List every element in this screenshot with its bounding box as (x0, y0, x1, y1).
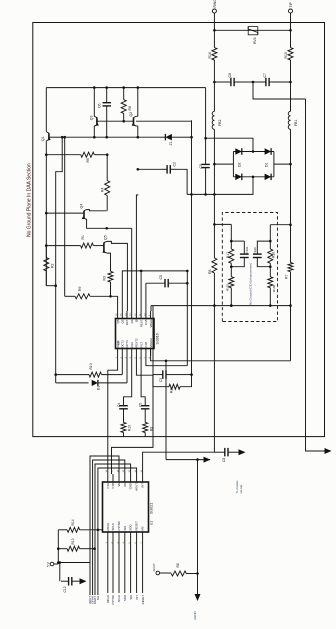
svg-text:C1B: C1B (111, 483, 115, 489)
svg-text:R14: R14 (71, 519, 75, 525)
node b2 rail (269, 304, 272, 307)
wire 55col long (55, 286, 57, 375)
resistor R9 (75, 294, 90, 299)
capacitor C13 (214, 451, 224, 453)
wire 214 rail resistor segment (213, 224, 215, 258)
wire 166 bottom corner (166, 459, 210, 461)
svg-text:FILT: FILT (139, 342, 143, 348)
svg-text:9: 9 (149, 314, 151, 316)
svg-text:SDI: SDI (129, 595, 133, 600)
node rail r8 (122, 86, 125, 89)
wire C1A column crossing barrier (112, 306, 154, 474)
svg-text:R3: R3 (102, 276, 106, 281)
node r14 m1col (97, 529, 100, 532)
wire q1rail corner down (46, 285, 55, 287)
svg-text:R1: R1 (81, 235, 85, 240)
resistor R3 (108, 271, 113, 282)
node c2 tap (137, 168, 140, 171)
IC U2 line-side box (116, 319, 155, 349)
capacitor C7 (261, 81, 266, 83)
wire Q1 emitter rail (45, 88, 47, 132)
wire 64col (64, 137, 66, 296)
svg-text:REXT2: REXT2 (135, 338, 139, 347)
wire 224 link (214, 223, 231, 225)
resistor R2 (44, 258, 49, 271)
resistor R4 (106, 155, 108, 181)
svg-text:14: 14 (125, 313, 127, 316)
wire ring stub (213, 13, 215, 30)
wire c12 branch (59, 563, 61, 582)
wire 166 column to lower section (165, 361, 167, 460)
node 285line 55col (54, 284, 57, 287)
wire 214 rail to C13 (213, 306, 215, 453)
wire W3 ignd rail (151, 349, 291, 361)
wire q3 collector (93, 88, 95, 117)
U1 right side pin stubs (107, 474, 109, 482)
svg-text:16: 16 (116, 313, 118, 316)
node zline 64col (63, 136, 66, 139)
svg-text:C8: C8 (228, 73, 232, 78)
svg-text:R10: R10 (89, 363, 93, 369)
wire ring DC line to bridge (213, 129, 215, 194)
terminal RING (212, 9, 216, 13)
svg-text:FSYNC: FSYNC (117, 521, 121, 530)
capacitor C2 (161, 168, 167, 170)
wire cid branch2 column (269, 225, 271, 241)
svg-text:C5: C5 (139, 403, 143, 407)
node q3 emitter baseline (93, 136, 96, 139)
svg-text:VREG2: VREG2 (149, 338, 153, 348)
wire tip line to W3 corner (290, 306, 292, 361)
wire 224 link2 (270, 224, 290, 226)
node rail c6 (105, 86, 108, 89)
svg-text:D1: D1 (97, 386, 101, 390)
svg-text:FB1: FB1 (294, 120, 298, 126)
diode D3 (265, 174, 272, 181)
node b2 bot (269, 265, 272, 268)
wire 5v line (54, 563, 59, 565)
node tip cid rail (289, 304, 292, 307)
wire Q1 base / Z1 line (62, 136, 94, 138)
wire Va column (186, 271, 188, 366)
svg-text:IGND: IGND (116, 341, 120, 348)
node q2 emitter baseline (137, 136, 140, 139)
dashed CID enhancement box (222, 213, 277, 322)
node bridge bottom mid (252, 175, 255, 178)
resistor R10 (123, 412, 125, 422)
wire C8 C7 rail (214, 81, 228, 83)
svg-text:14: 14 (117, 469, 119, 472)
wire R11 loop (180, 375, 192, 387)
transistor Q3 (96, 118, 98, 126)
svg-text:16: 16 (106, 469, 108, 472)
capacitor C100 parallel (257, 241, 270, 254)
node r6 r4col (106, 153, 109, 156)
transistor Q2 (133, 118, 135, 126)
node 55col r12 (54, 373, 57, 376)
wire P7 top column W2 C5 (145, 283, 147, 311)
wire P2 top column W1 (122, 271, 187, 311)
resistor R9b (144, 412, 146, 422)
svg-text:Q1: Q1 (41, 136, 45, 141)
svg-text:Q5: Q5 (103, 235, 107, 240)
wire q3q2 base line (99, 120, 131, 122)
wire bridge top row (233, 151, 274, 153)
svg-text:TIP: TIP (289, 1, 293, 7)
varistor RV1 (248, 27, 258, 35)
svg-text:11: 11 (140, 313, 142, 316)
node c12 tee (59, 561, 62, 564)
node w1 p6 (140, 270, 143, 273)
capacitor C3 (153, 374, 163, 376)
wire U1 pin7 C13 line (143, 452, 215, 474)
wire q5 emitter / R3 (107, 253, 111, 271)
svg-text:13: 13 (130, 313, 132, 316)
svg-text:U1: U1 (149, 521, 153, 525)
svg-text:C9: C9 (199, 164, 203, 169)
resistor R18 (269, 241, 271, 249)
svg-text:Q3: Q3 (90, 115, 94, 120)
arrow off-page vcm (325, 448, 332, 454)
wire P1 bottom to U1 (108, 356, 118, 474)
svg-text:INT: INT (141, 483, 145, 488)
svg-text:R8: R8 (128, 106, 132, 111)
resistor R17b (212, 258, 217, 273)
resistor R7 (288, 263, 293, 272)
node r13 rgcol (93, 547, 96, 550)
svg-text:Q2: Q2 (129, 112, 133, 117)
capacitor C11 (144, 409, 146, 412)
svg-text:10: 10 (144, 313, 146, 316)
svg-text:Si3016: Si3016 (156, 333, 160, 344)
node q4emit r4 (105, 227, 108, 230)
svg-text:DCT3: DCT3 (125, 340, 129, 348)
resistor R11 (169, 384, 180, 389)
svg-text:R9: R9 (78, 286, 82, 291)
wire q2 collector (136, 115, 138, 117)
svg-text:C1B: C1B (144, 342, 148, 348)
svg-text:Si3021: Si3021 (149, 503, 153, 514)
U1 left side pin stubs (107, 532, 109, 539)
svg-text:DCT2: DCT2 (121, 340, 125, 348)
ferrite bead FB2 (212, 111, 214, 129)
node agnd tee (196, 458, 199, 461)
svg-text:IB: IB (135, 319, 139, 322)
svg-text:R100: R100 (272, 284, 276, 292)
wire tip FB segment (290, 60, 292, 111)
resistor R15 (290, 30, 292, 47)
node dct c9col (204, 193, 207, 196)
wire P5 top column to q2 emitter net (136, 194, 137, 311)
wire q5 collector line (107, 241, 127, 311)
svg-text:R17: R17 (226, 252, 230, 258)
svg-text:D2: D2 (238, 162, 242, 167)
node r8 baseline (122, 120, 125, 123)
wire D1A line (56, 382, 89, 384)
wire P4 top column (131, 228, 133, 311)
node b2 top (269, 240, 272, 243)
node q1rail r1 (45, 244, 48, 247)
wire Va P7 connection (146, 356, 187, 366)
svg-text:10: 10 (141, 469, 143, 472)
node zline end vb (190, 136, 193, 139)
svg-text:RX2: RX2 (130, 342, 134, 348)
svg-text:MCLK: MCLK (106, 523, 110, 531)
diode D1 (265, 148, 272, 155)
svg-text:No Ground (CID Enhancement): No Ground (CID Enhancement) (249, 263, 253, 305)
svg-text:5 V: 5 V (47, 561, 51, 567)
svg-text:7: 7 (144, 357, 146, 359)
svg-text:C12: C12 (63, 586, 67, 592)
svg-text:GND: GND (129, 483, 133, 489)
svg-text:RV1: RV1 (253, 37, 257, 44)
ferrite bead FB1 (288, 111, 290, 129)
svg-text:12: 12 (135, 313, 137, 316)
svg-text:R13: R13 (71, 538, 75, 544)
wire P3 bottom (126, 356, 128, 383)
capacitor C101 parallel (231, 240, 244, 242)
svg-text:VREG: VREG (149, 320, 153, 328)
svg-text:SDO: SDO (123, 594, 127, 601)
wire U1 pin4 wrap (93, 460, 125, 595)
capacitor C5 (146, 282, 165, 284)
wire C9 rail (205, 88, 207, 160)
resistor R12 (89, 372, 102, 377)
wire U1 pin6 wrap (98, 468, 137, 595)
wire P6 top column (140, 271, 142, 311)
node bridge left tap (213, 163, 216, 166)
wire tip line r7 segment (290, 225, 292, 263)
wire P8 top column (150, 306, 152, 311)
transistor Q5 body (103, 243, 105, 253)
wire tip stub (290, 13, 292, 30)
node c8c7 mid (252, 81, 255, 84)
svg-text:FB2: FB2 (218, 120, 222, 126)
node ring RV1 (213, 29, 216, 32)
wire 62col jog (56, 137, 63, 286)
svg-text:15: 15 (121, 313, 123, 316)
node bridge top mid (252, 150, 255, 153)
wire 214 rail upper (213, 194, 215, 224)
svg-text:RING: RING (213, 0, 217, 8)
terminal AOUT (156, 571, 160, 575)
svg-text:INT: INT (135, 595, 139, 600)
wire q4 emitter line (86, 219, 132, 228)
outer DAA border box (33, 23, 325, 437)
svg-text:12: 12 (129, 469, 131, 472)
resistor R1 (81, 243, 94, 248)
wire R2 branch (45, 271, 47, 286)
resistor R100 (269, 267, 271, 277)
capacitor C12 (61, 580, 69, 582)
wire Q1 base line (49, 136, 62, 138)
resistor R14 (67, 527, 80, 532)
wire r9 line (65, 295, 75, 297)
svg-text:SCLK: SCLK (111, 523, 115, 530)
svg-text:SDO: SDO (129, 524, 133, 531)
arrow off page after C13 (239, 449, 246, 455)
wire U1 pin5 wrap (95, 464, 131, 595)
wire 55col to diode branch (55, 375, 57, 383)
wire q3 emitter (93, 126, 95, 137)
svg-text:C8: C8 (222, 458, 226, 462)
resistor R17 (230, 241, 232, 249)
node rail q2 (137, 86, 140, 89)
wire U1 left pin leads (107, 539, 109, 593)
U2 bottom side pin stubs (117, 349, 119, 357)
svg-text:M0: M0 (141, 526, 145, 530)
svg-text:C7: C7 (263, 73, 267, 78)
arrow off page dgnd (204, 457, 211, 463)
wire bridge bottom row (233, 176, 274, 178)
node dct vb (190, 193, 193, 196)
wire P4 bottom to C10 branch (124, 356, 132, 403)
svg-text:R8: R8 (208, 269, 212, 274)
wire bridge feed from C9 rail (206, 138, 253, 151)
wire bridge bottom to dct rail (187, 177, 253, 195)
wire VCM rail (306, 99, 325, 451)
svg-text:8: 8 (149, 357, 151, 359)
svg-text:VD: VD (123, 483, 127, 487)
svg-text:No Ground Plane In DAA Section: No Ground Plane In DAA Section (27, 163, 33, 237)
wire P5 bottom to C3 (136, 356, 153, 375)
svg-text:R8: R8 (176, 563, 180, 567)
node bridge right tap (289, 163, 292, 166)
wire hv top rail (46, 87, 205, 89)
svg-text:RESET: RESET (135, 521, 139, 531)
diode D5 (92, 380, 98, 386)
wire Vb column (191, 120, 193, 374)
node 214 cid rail (213, 304, 216, 307)
wire q4 collector tie (87, 210, 107, 211)
transistor Q4 (46, 212, 84, 214)
svg-text:DCT: DCT (125, 319, 129, 325)
zener Z1 (165, 134, 172, 141)
arrow gnd c12 (80, 578, 87, 584)
svg-text:AGND: AGND (193, 610, 197, 620)
wire agnd rail (197, 460, 199, 595)
resistor R16 (213, 30, 215, 47)
wire R12 line (56, 374, 89, 376)
wire bridge right rail (273, 152, 275, 177)
node r13 top (57, 547, 60, 550)
node c6 baseline (105, 136, 108, 139)
diode D2 (235, 148, 242, 155)
svg-text:VA: VA (117, 483, 121, 487)
diode D4 (235, 174, 242, 181)
svg-text:C3: C3 (159, 378, 163, 382)
svg-text:RX: RX (130, 319, 134, 323)
wire ring FB segment (213, 60, 215, 111)
svg-text:R15: R15 (284, 52, 288, 58)
node w3 166col (165, 359, 168, 362)
node c9 rail feed (204, 137, 207, 140)
wire c8c7 tap to vcm rail (253, 82, 306, 99)
svg-text:R7: R7 (284, 274, 288, 279)
svg-text:MCLK: MCLK (106, 595, 110, 603)
node c8 top (213, 81, 216, 84)
svg-text:R4: R4 (100, 187, 104, 192)
transistor Q5 (46, 245, 80, 247)
wire bridge left mid tap (214, 163, 233, 165)
wire cid bottom rail (151, 305, 291, 307)
node q1rail r6 (45, 153, 48, 156)
svg-text:via cap: via cap (239, 484, 243, 493)
svg-text:FSYNC: FSYNC (111, 595, 115, 604)
svg-text:Q4: Q4 (80, 204, 84, 209)
svg-text:R10: R10 (128, 425, 132, 431)
svg-text:D1: D1 (264, 162, 268, 167)
capacitor C8 (226, 81, 231, 83)
node c7 bot (289, 81, 292, 84)
node q1rail q4 (45, 212, 48, 215)
wire tip DC line (290, 129, 292, 224)
svg-text:C6: C6 (98, 103, 102, 108)
wire aout lead (160, 572, 172, 574)
node dct fb2col (213, 193, 216, 196)
node cid rail b1 (230, 304, 233, 307)
svg-text:REXT: REXT (139, 319, 143, 327)
svg-text:C4: C4 (117, 403, 121, 407)
svg-text:R11: R11 (170, 387, 174, 393)
svg-text:C2: C2 (173, 162, 177, 167)
transistor Q1 (48, 133, 50, 139)
svg-text:C1A: C1A (106, 483, 110, 489)
wire base line to Vb corner (136, 120, 192, 122)
node r8b agnd (196, 572, 199, 575)
svg-text:11: 11 (135, 469, 137, 472)
resistor R6 (46, 154, 80, 156)
svg-text:AOUT: AOUT (152, 563, 156, 572)
wire R14 line (58, 529, 67, 531)
wire P2 bottom R12 line (121, 356, 123, 375)
node 214 junction top (213, 223, 216, 226)
node b1 bot (230, 265, 233, 268)
svg-text:R6: R6 (86, 158, 90, 163)
capacitor C6 (106, 106, 108, 121)
node rail q3 (93, 86, 96, 89)
resistor R11b (171, 571, 186, 576)
wire U1 pin3 wrap (90, 456, 119, 595)
node c3 vb (190, 373, 193, 376)
node b1 rail (230, 304, 233, 307)
wire bridge right mid tap (274, 163, 291, 165)
node b1 top (230, 240, 233, 243)
wire bridge left rail (232, 152, 234, 177)
arrow agnd off page (195, 594, 201, 601)
node w1 va end (186, 270, 189, 273)
wire c2 from q2emitter net (138, 168, 161, 170)
U2 top side pin stubs (117, 311, 119, 319)
terminal 5V (50, 562, 54, 566)
svg-text:Z1: Z1 (169, 141, 173, 145)
svg-text:R18: R18 (272, 252, 276, 258)
wire R13 line (58, 548, 67, 550)
svg-text:SCLK: SCLK (117, 595, 121, 602)
node tip RV1 (289, 29, 292, 32)
node zline 62col (61, 136, 64, 139)
svg-text:C1A: C1A (144, 319, 148, 325)
svg-text:13: 13 (123, 469, 125, 472)
svg-text:M1: M1 (96, 596, 100, 600)
wire r14 into U1 (98, 529, 103, 531)
svg-text:15: 15 (111, 469, 113, 472)
svg-text:R16: R16 (208, 52, 212, 58)
svg-text:C5: C5 (159, 275, 163, 280)
svg-text:SDI: SDI (123, 526, 127, 531)
svg-text:AOUT: AOUT (135, 483, 139, 491)
wire r13 r14 common (57, 530, 59, 563)
